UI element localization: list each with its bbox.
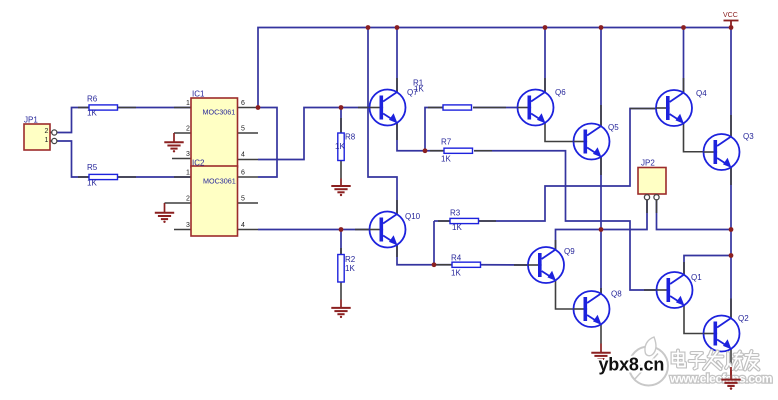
svg-text:www.elecfans.com: www.elecfans.com (669, 372, 772, 386)
svg-text:2: 2 (186, 196, 190, 203)
svg-text:Q5: Q5 (608, 123, 619, 132)
svg-text:1: 1 (186, 170, 190, 177)
svg-text:R4: R4 (451, 254, 462, 263)
svg-text:JP2: JP2 (641, 159, 655, 168)
svg-text:1K: 1K (451, 269, 461, 278)
svg-text:Q7: Q7 (407, 88, 418, 97)
svg-text:Q6: Q6 (555, 88, 566, 97)
svg-text:4: 4 (241, 222, 245, 229)
svg-text:R5: R5 (87, 163, 98, 172)
svg-text:Q4: Q4 (696, 89, 707, 98)
svg-text:1K: 1K (335, 142, 345, 151)
svg-text:3: 3 (186, 222, 190, 229)
svg-text:Q3: Q3 (743, 132, 754, 141)
svg-text:VCC: VCC (723, 12, 738, 19)
svg-text:MOC3061: MOC3061 (203, 177, 236, 186)
svg-text:1: 1 (186, 100, 190, 107)
svg-text:MOC3061: MOC3061 (203, 108, 236, 117)
svg-text:R6: R6 (87, 95, 98, 104)
svg-text:3: 3 (186, 151, 190, 158)
svg-text:4: 4 (241, 152, 245, 159)
svg-text:JP1: JP1 (24, 116, 38, 125)
svg-text:Q1: Q1 (691, 273, 702, 282)
svg-text:Q2: Q2 (738, 314, 749, 323)
svg-text:1K: 1K (87, 109, 97, 118)
svg-text:IC1: IC1 (192, 90, 205, 99)
svg-text:Q10: Q10 (405, 212, 421, 221)
svg-text:ybx8.cn: ybx8.cn (599, 355, 665, 375)
svg-text:R3: R3 (450, 209, 461, 218)
svg-text:R7: R7 (441, 138, 452, 147)
svg-text:R2: R2 (345, 255, 356, 264)
svg-text:1K: 1K (441, 155, 451, 164)
svg-text:5: 5 (241, 126, 245, 133)
svg-text:1K: 1K (345, 264, 355, 273)
svg-text:IC2: IC2 (192, 159, 205, 168)
svg-text:5: 5 (241, 196, 245, 203)
svg-text:1K: 1K (452, 223, 462, 232)
svg-text:6: 6 (241, 170, 245, 177)
svg-text:6: 6 (241, 100, 245, 107)
svg-text:2: 2 (186, 126, 190, 133)
svg-text:1K: 1K (87, 179, 97, 188)
svg-text:Q9: Q9 (564, 247, 575, 256)
svg-text:1: 1 (45, 137, 49, 144)
svg-text:2: 2 (45, 128, 49, 135)
svg-text:Q8: Q8 (611, 290, 622, 299)
svg-text:R8: R8 (345, 133, 356, 142)
